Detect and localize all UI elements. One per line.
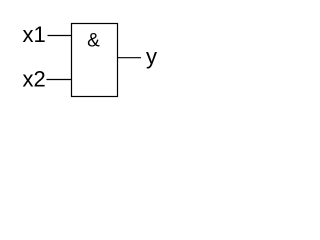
wire output y (118, 57, 142, 59)
svg-text:y: y (146, 44, 157, 69)
wire input x1 (48, 35, 72, 37)
svg-text:x2: x2 (23, 67, 46, 92)
wire input x2 (47, 79, 72, 81)
AND gate U1 body (72, 24, 118, 97)
svg-text:&: & (87, 31, 100, 52)
svg-text:x1: x1 (23, 22, 46, 47)
